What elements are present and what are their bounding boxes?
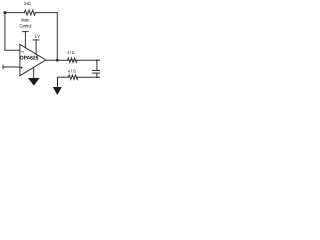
terminal tick non-inverting input bbox=[2, 65, 4, 68]
svg-text:5 V: 5 V bbox=[35, 34, 40, 39]
resistor R1 1 kOhm zigzag bbox=[24, 10, 35, 15]
wire 5V supply pin bbox=[35, 40, 37, 54]
svg-text:4.7 Ω: 4.7 Ω bbox=[68, 69, 76, 74]
wire feedback top-left horizontal bbox=[5, 12, 25, 14]
wire inverting input horizontal bbox=[5, 49, 20, 51]
wire down to arrow bbox=[57, 77, 59, 87]
wire feedback top-right horizontal bbox=[35, 12, 57, 14]
wire top rail to cap corner bbox=[96, 60, 98, 70]
wire inverting input vertical bbox=[4, 13, 6, 51]
svg-text:Control: Control bbox=[20, 24, 32, 29]
svg-text:Mode: Mode bbox=[21, 17, 29, 22]
terminal bar 5V supply bbox=[33, 39, 39, 41]
capacitor C1 top plate bbox=[92, 69, 100, 71]
wire output horizontal bbox=[46, 59, 100, 61]
wire bottom rail left bbox=[58, 76, 69, 78]
node C cap top junction dot bbox=[96, 59, 98, 61]
terminal bar Mode Control bbox=[23, 31, 29, 33]
op-amp U1 triangle bbox=[20, 44, 46, 75]
node B output junction dot bbox=[56, 59, 59, 62]
ground symbol under op-amp bbox=[28, 78, 40, 86]
node D cap bottom junction dot bbox=[96, 76, 98, 78]
resistor R2 4.7 Ohm zigzag top bbox=[68, 58, 77, 62]
wire feedback vertical down to output node bbox=[56, 13, 58, 60]
wire non-inverting input horizontal bbox=[3, 66, 20, 68]
ground arrow bottom left bbox=[53, 87, 62, 95]
wire Mode Control pin bbox=[24, 32, 26, 48]
wire bottom rail right bbox=[77, 76, 100, 78]
node A feedback input junction dot bbox=[3, 11, 6, 14]
wire cap bottom down bbox=[96, 73, 98, 77]
capacitor C1 bottom plate bbox=[92, 72, 100, 74]
plus sign non-inverting input bbox=[20, 67, 22, 69]
svg-text:kΩ: kΩ bbox=[27, 1, 32, 6]
svg-text:4.7 Ω: 4.7 Ω bbox=[67, 50, 74, 55]
minus sign inverting input bbox=[22, 51, 24, 53]
wire negative supply pin bbox=[33, 67, 35, 78]
svg-text:OPA625: OPA625 bbox=[20, 56, 39, 62]
resistor R3 4.7 Ohm zigzag bottom bbox=[68, 75, 77, 79]
